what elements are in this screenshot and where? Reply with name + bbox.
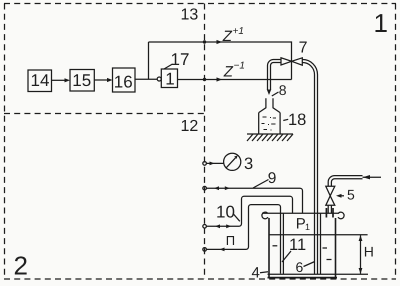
svg-text:Z: Z: [223, 64, 234, 81]
terminal dot Z-1: [203, 78, 206, 81]
supply line with arrow: [363, 176, 382, 178]
dashed outer enclosure border bottom: [4, 278, 396, 280]
valve 7 left triangle: [281, 58, 292, 65]
wire riser to Z+1 line: [148, 42, 150, 79]
pointer line of label 4: [260, 272, 268, 273]
input circle of block 1: [157, 77, 161, 81]
block 16: [113, 68, 136, 92]
svg-text:17: 17: [171, 50, 190, 69]
gauge 3 terminal circle: [203, 162, 207, 166]
tank 4 bottom: [268, 277, 338, 279]
tank 4 left wall: [268, 218, 270, 277]
svg-text:2: 2: [14, 251, 28, 281]
level dash left gap: [273, 245, 278, 247]
arrowhead 15 to 16: [107, 78, 113, 82]
vessel 18 contents dashes: [262, 117, 277, 130]
svg-text:1: 1: [305, 222, 310, 232]
wire 16 to block 1: [135, 78, 157, 80]
arrow on gauge wire: [210, 162, 215, 166]
line 10 to bell lid: [206, 196, 292, 226]
liquid level extension to H dimension: [336, 234, 368, 236]
block 14: [28, 70, 52, 92]
pointer line of label 11: [282, 251, 291, 262]
svg-text:7: 7: [299, 40, 308, 57]
svg-text:Z: Z: [222, 28, 233, 45]
svg-text:3: 3: [244, 155, 253, 173]
valve 5 upper triangle: [326, 186, 335, 196]
svg-text:15: 15: [72, 71, 91, 90]
arrow on Z+1 line: [217, 40, 223, 44]
pointer line of label 8: [272, 92, 279, 96]
block 1 (controller): [161, 69, 177, 88]
svg-text:1: 1: [374, 8, 388, 38]
terminal circle line 10: [203, 225, 207, 229]
svg-text:18: 18: [288, 111, 306, 129]
bell 11 left wall: [282, 213, 284, 274]
svg-text:5: 5: [347, 187, 355, 203]
pointer line of label 9: [253, 180, 269, 189]
pointer line of label 10: [233, 214, 240, 222]
bell lid left curl: [262, 212, 268, 219]
gauge 3 needle: [226, 158, 235, 168]
svg-text:−1: −1: [234, 61, 245, 72]
svg-text:8: 8: [279, 82, 287, 98]
liquid level line in tank: [269, 234, 336, 236]
dashed outer enclosure border left: [4, 4, 6, 280]
H dimension line with arrows: [360, 235, 362, 274]
dashed divider between enclosure 13/12 and enclosure 1: [204, 4, 206, 280]
dashed divider between enclosure 13 and enclosure 12: [4, 113, 205, 115]
block 15: [70, 70, 94, 92]
pipe below valve 5 to bell lid: [328, 205, 331, 213]
tank 4 right wall: [335, 218, 337, 277]
arrowhead 14 to 15: [65, 78, 71, 82]
svg-text:1: 1: [165, 70, 174, 89]
double arrows on line 9: [214, 186, 219, 190]
svg-text:10: 10: [216, 203, 235, 222]
level dash right gap upper: [323, 247, 328, 249]
terminal dot Z+1: [203, 40, 206, 43]
pressure gauge 3: [224, 153, 241, 170]
terminal circle line 9: [203, 186, 207, 190]
arrow 8 into vessel 18: [267, 90, 271, 96]
arrow on line P pointing to terminal: [220, 248, 225, 252]
bell 11 lid: [262, 212, 339, 214]
svg-text:H: H: [364, 244, 374, 260]
double arrows on line 10: [215, 224, 220, 228]
svg-text:+1: +1: [233, 26, 244, 37]
ground line under vessel 18: [247, 133, 293, 135]
supply pipe to valve 5 (double line): [328, 176, 362, 187]
valve 5 lower triangle: [326, 196, 335, 206]
svg-text:9: 9: [268, 170, 277, 187]
pipe 6 from valve 7 down into tank (double line): [303, 60, 318, 275]
arrow on Z-1 line: [217, 77, 223, 81]
line P (output) into annular gap of tank: [206, 205, 280, 274]
vessel 18 neck: [259, 98, 266, 112]
ground hatching: [247, 134, 293, 141]
svg-text:11: 11: [289, 236, 306, 254]
wire 14 to 15 with arrow: [52, 79, 66, 81]
level dash right gap lower: [327, 259, 332, 261]
line 9 to bell lid: [206, 188, 302, 213]
bell lid right curl: [338, 212, 344, 219]
svg-text:16: 16: [114, 73, 133, 92]
vessel 18 body: [259, 113, 280, 134]
svg-text:6: 6: [296, 259, 304, 275]
wire to gauge 3: [206, 162, 223, 164]
dashed outer enclosure border top: [4, 3, 396, 5]
pipe from valve 7 to vessel 18 (double line): [268, 60, 282, 91]
terminal circle line P: [203, 248, 207, 252]
pointer line of label 6: [304, 262, 315, 267]
wire 15 to 16 with arrow: [94, 79, 107, 81]
wire Z+1 line: [149, 42, 292, 80]
tank inner bottom / dimension extension line: [268, 273, 369, 275]
pointer line of label 17: [164, 64, 173, 69]
svg-text:12: 12: [181, 118, 199, 135]
svg-text:14: 14: [31, 71, 50, 90]
valve 7 right triangle: [292, 58, 303, 65]
flange bars at lid: [325, 208, 327, 218]
pointer line of label 18: [283, 119, 288, 120]
svg-text:4: 4: [252, 265, 260, 282]
arrow at valve 5: [336, 194, 342, 198]
svg-text:13: 13: [181, 7, 199, 24]
wire Z-1 line from block 1 output: [178, 79, 292, 81]
bell 11 right wall: [320, 213, 322, 274]
dashed enclosure 1 border right: [395, 4, 397, 280]
svg-text:П: П: [226, 233, 235, 248]
